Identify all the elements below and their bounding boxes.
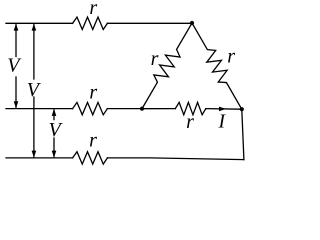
wire middle-left segment bbox=[6, 108, 73, 110]
resistor r (top line) bbox=[73, 17, 108, 29]
resistor r (delta right side) bbox=[192, 23, 242, 109]
voltage arrow V (top to middle), upper shaft bbox=[15, 25, 17, 57]
current arrowhead I bbox=[219, 107, 226, 112]
voltage arrow V (middle to bottom), lower shaft bbox=[53, 138, 55, 157]
circuit schematic: three-phase lines with delta resistor network bbox=[0, 0, 252, 171]
wire from node A to delta bottom resistor bbox=[142, 108, 175, 110]
resistor r (delta left side) bbox=[142, 23, 192, 109]
svg-text:r: r bbox=[89, 0, 97, 19]
svg-text:r: r bbox=[89, 82, 97, 104]
wire middle segment to delta left node bbox=[107, 108, 142, 110]
wire top-left segment bbox=[6, 22, 73, 24]
resistor r (bottom line) bbox=[73, 152, 108, 164]
wire bottom-left segment bbox=[6, 157, 73, 159]
voltage arrow V (top to bottom), upper shaft bbox=[33, 25, 35, 80]
node B (delta bottom-right) bbox=[240, 107, 244, 111]
resistor r (middle line) bbox=[73, 102, 108, 114]
node top (delta apex) bbox=[190, 21, 194, 25]
svg-text:r: r bbox=[186, 111, 194, 133]
node A (delta bottom-left) bbox=[140, 107, 144, 111]
svg-text:V: V bbox=[48, 119, 63, 141]
svg-text:r: r bbox=[89, 129, 97, 151]
wire bottom-right segment bbox=[107, 158, 244, 160]
wire right vertical (node B to bottom wire) bbox=[242, 109, 244, 159]
svg-text:I: I bbox=[218, 112, 227, 133]
voltage arrow V (top to bottom), lower shaft bbox=[33, 97, 35, 157]
svg-text:r: r bbox=[227, 45, 235, 67]
wire delta bottom with current arrow bbox=[206, 108, 242, 111]
voltage arrow V (top to middle), lower shaft bbox=[15, 77, 17, 107]
resistor r (delta bottom side) bbox=[175, 102, 206, 114]
svg-text:r: r bbox=[151, 48, 159, 70]
svg-text:V: V bbox=[7, 55, 22, 77]
voltage arrow V (middle to bottom), upper shaft bbox=[53, 110, 55, 120]
wire top-right segment bbox=[107, 22, 192, 24]
svg-text:V: V bbox=[27, 79, 42, 101]
